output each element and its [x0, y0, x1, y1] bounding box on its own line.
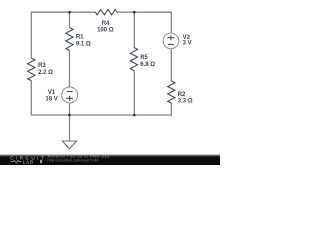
svg-text:http://circuitlab.com/ceyrc7c4: http://circuitlab.com/ceyrc7c4b: [48, 159, 99, 163]
wire: R1 branch vertical: [69, 12, 71, 27]
svg-text:3.3 Ω: 3.3 Ω: [178, 99, 193, 105]
svg-text:R1: R1: [76, 34, 84, 40]
svg-text:R4: R4: [102, 21, 110, 27]
voltage source V2: [163, 33, 179, 49]
node junction top-left: [68, 11, 71, 14]
resistor R2: [168, 81, 175, 103]
svg-text:18 V: 18 V: [45, 96, 57, 102]
wire: ground stem: [69, 115, 71, 141]
svg-text:9.1 Ω: 9.1 Ω: [76, 42, 91, 48]
ground: [62, 141, 76, 149]
resistor R3: [28, 58, 35, 81]
svg-text:3 V: 3 V: [183, 41, 192, 47]
svg-text:V1: V1: [48, 90, 56, 96]
svg-text:R3: R3: [38, 63, 46, 69]
svg-text:100 Ω: 100 Ω: [97, 27, 114, 33]
resistor R4: [95, 10, 117, 15]
node junction bottom-left: [68, 114, 71, 117]
svg-text:2.2 Ω: 2.2 Ω: [38, 70, 53, 76]
wire: top-right L (R4 across, down to V2): [117, 12, 171, 33]
resistor R1: [66, 28, 73, 51]
svg-text:R2: R2: [178, 92, 186, 98]
wire: left-top L (R3 branch up, across to R4): [31, 12, 95, 58]
wire: V2 to R2 vertical: [170, 49, 172, 81]
svg-text:6.8 Ω: 6.8 Ω: [140, 62, 155, 68]
node junction bottom-right: [133, 114, 136, 117]
svg-text:LAB: LAB: [23, 159, 34, 164]
svg-text:R5: R5: [140, 55, 148, 61]
voltage source V1: [62, 87, 78, 103]
wire: R5 branch vertical: [133, 12, 135, 47]
node junction top-right: [133, 11, 136, 14]
wire: bottom U (R2 bottom, across bottom, up to R3): [31, 81, 171, 116]
resistor R5: [130, 48, 137, 71]
